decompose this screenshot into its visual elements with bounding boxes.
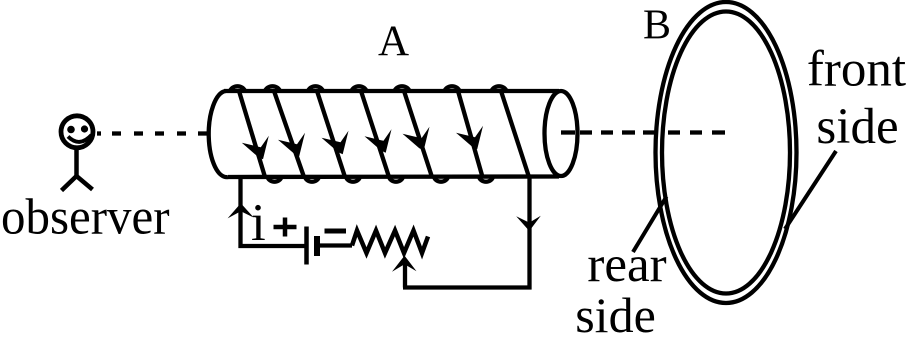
svg-text:B: B <box>643 3 671 49</box>
winding wire 6 <box>458 91 483 177</box>
right circuit wire <box>527 177 531 290</box>
winding bottom loop 5 <box>434 177 448 182</box>
label minus <box>325 229 347 234</box>
svg-text:side: side <box>575 287 656 341</box>
dashed axis line (right segment) <box>561 130 725 134</box>
winding wire 1 <box>239 91 265 177</box>
ring B outer rim (front side) <box>656 2 797 303</box>
svg-text:front: front <box>807 42 906 98</box>
solenoid A top edge <box>224 89 559 93</box>
solenoid A right end ellipse <box>545 91 578 176</box>
winding wire 3 <box>317 91 345 177</box>
battery positive plate <box>304 227 309 265</box>
winding bottom loop 3 <box>346 177 360 182</box>
winding wire 5 <box>404 91 432 177</box>
current arrow on winding 2 <box>278 133 305 157</box>
battery negative plate <box>314 236 320 256</box>
svg-text:i: i <box>251 194 266 252</box>
winding bottom loop 4 <box>389 177 403 182</box>
current arrow on winding 6 <box>456 126 483 150</box>
current arrow on winding 4 <box>365 129 392 153</box>
winding wire 4 <box>361 91 389 177</box>
ring B inner rim (rear side) <box>662 12 790 294</box>
current arrow on winding 3 <box>322 131 349 155</box>
solenoid A bottom edge <box>228 174 559 179</box>
winding top loop 5 <box>395 86 410 91</box>
solenoid A left end cap <box>209 91 228 177</box>
winding top loop 1 <box>230 86 245 91</box>
leader line rear side <box>633 197 667 253</box>
rheostat wiper arrow <box>392 256 417 288</box>
winding bottom loop 6 <box>479 177 493 182</box>
current arrow on winding 1 <box>242 136 269 160</box>
label plus <box>274 218 297 237</box>
current arrow on winding 5 <box>403 127 430 151</box>
svg-text:observer: observer <box>1 190 170 246</box>
winding top loop 3 <box>308 86 323 91</box>
svg-text:side: side <box>816 99 898 155</box>
leader line front side <box>785 151 836 229</box>
svg-text:rear: rear <box>587 237 666 293</box>
observer head <box>61 116 93 148</box>
rheostat resistor <box>352 231 428 254</box>
winding bottom loop 2 <box>305 177 319 182</box>
wire battery to resistor <box>317 243 352 247</box>
dashed axis line (left segment) <box>97 131 207 135</box>
winding bottom loop 1 <box>268 177 282 182</box>
current arrow up on left wire <box>228 203 254 218</box>
winding top loop 2 <box>265 86 280 91</box>
svg-text:A: A <box>378 18 409 65</box>
left circuit wire <box>241 177 307 246</box>
observer legs <box>62 176 93 191</box>
observer body <box>74 149 79 176</box>
winding wire 7 <box>501 91 529 177</box>
winding wire 2 <box>274 91 304 177</box>
winding top loop 6 <box>445 86 460 91</box>
bottom circuit wire <box>403 285 532 289</box>
current arrow down on right wire <box>516 216 541 231</box>
winding top loop 4 <box>352 86 367 91</box>
winding top loop 7 <box>492 86 507 91</box>
